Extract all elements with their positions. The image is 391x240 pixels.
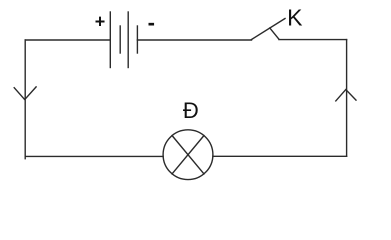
switch K blade (252, 19, 286, 40)
svg-text:Đ: Đ (183, 98, 199, 123)
wire bottom-right (corner to lamp) (213, 155, 347, 157)
current arrow down (left side) (14, 87, 36, 100)
wire right vertical (346, 40, 348, 157)
svg-text:+: + (95, 11, 106, 31)
wire left vertical (24, 40, 26, 159)
lamp D circle (163, 130, 213, 180)
lamp D cross (172, 135, 205, 174)
wire bottom-left (lamp to corner) (25, 155, 163, 157)
current arrow up (right side) (336, 90, 356, 101)
svg-text:-: - (148, 10, 155, 35)
wire battery to switch (137, 39, 251, 41)
switch K contact arm (270, 28, 279, 39)
svg-text:K: K (287, 5, 303, 31)
wire top-left (corner to battery) (25, 39, 110, 41)
battery (110, 12, 137, 68)
wire switch to top-right corner (279, 39, 347, 41)
